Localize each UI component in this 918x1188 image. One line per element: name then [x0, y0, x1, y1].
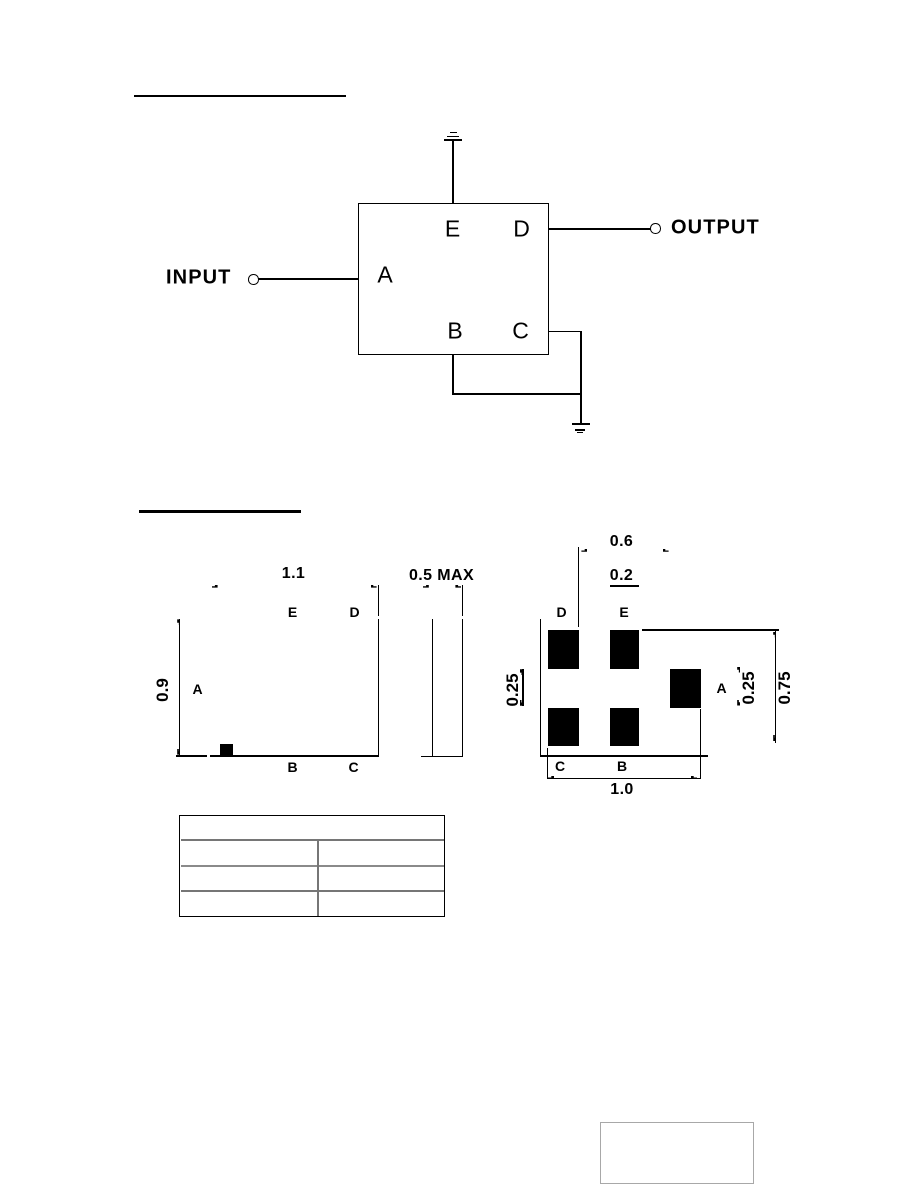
ground (bottom): [572, 423, 590, 425]
dim 0.2 value: [610, 567, 633, 585]
dim 1.0 arrow right: [691, 776, 697, 779]
pad E: [610, 630, 639, 669]
dim 0.75 line: [775, 630, 777, 743]
bottom edge: [421, 756, 463, 758]
pin E: [445, 215, 460, 242]
right edge extension: [378, 585, 380, 616]
dim 1.0 extension right: [700, 709, 702, 779]
pad label C: [555, 758, 565, 774]
dim 0.5 MAX value: [409, 567, 474, 585]
dim 0.75 arrow up: [773, 632, 776, 638]
dim 0.25 underline (left): [522, 669, 524, 706]
dim 0.9 arrow down: [177, 749, 180, 755]
dim 0.25 value (pad A): [739, 671, 759, 704]
dim 0.5 arrow right: [455, 585, 461, 588]
bottom edge: [210, 755, 379, 757]
pin A: [377, 261, 392, 288]
dim 0.6 value: [610, 533, 633, 551]
dim 0.75 value: [775, 671, 795, 704]
dim 1.0 value: [610, 781, 633, 799]
input terminal: [248, 274, 259, 285]
dim 0.75 arrow down: [773, 735, 776, 741]
pad A: [670, 669, 701, 708]
wire pin B to ground (bottom route): [452, 355, 454, 395]
pad label D: [556, 604, 566, 620]
dim 0.75 extension line: [642, 629, 779, 631]
notes table: [179, 815, 445, 918]
dim 0.9 arrow up: [177, 619, 180, 625]
right edge: [378, 619, 380, 756]
device body U1: [358, 203, 549, 355]
bottom edge left stub: [176, 755, 207, 757]
bottom edge: [540, 755, 708, 757]
pad label A: [716, 680, 726, 696]
pad label E: [619, 604, 628, 620]
pad label B: [617, 758, 627, 774]
dim 0.25 arrow up: [737, 667, 740, 673]
wire input to pin A: [258, 278, 358, 280]
dim 0.25 left tick down: [520, 700, 523, 706]
left edge: [432, 619, 434, 757]
pad B: [610, 708, 639, 746]
pin label C: [348, 759, 358, 775]
dim 1.0 line: [547, 778, 700, 780]
pad D: [548, 630, 580, 669]
dim 0.6 arrow left: [581, 549, 587, 552]
dim 0.9 value: [153, 678, 173, 702]
pin B: [447, 317, 462, 344]
left extension line: [540, 619, 542, 756]
pin D: [513, 215, 530, 242]
OUTPUT label: [671, 217, 760, 240]
dim 0.6 extension line: [578, 547, 580, 627]
ground (top, inverted): [450, 132, 457, 134]
pin label A: [192, 681, 202, 697]
dim 0.5 arrow left: [423, 585, 429, 588]
heading underline (section 2): [139, 510, 301, 513]
pin label B: [287, 759, 297, 775]
pad C: [548, 708, 580, 746]
dim 0.2 underline: [610, 585, 639, 587]
right edge: [462, 619, 464, 757]
dim 1.0 arrow left: [548, 776, 554, 779]
dim 0.6 arrow right: [663, 549, 669, 552]
right edge extension: [462, 585, 464, 616]
dim 1.1 value: [282, 565, 305, 583]
pin label D: [349, 604, 359, 620]
dim 0.25 value (left): [503, 673, 523, 706]
output terminal: [650, 223, 661, 234]
dim 1.1 arrow right: [371, 585, 377, 588]
dim 1.0 extension left: [547, 748, 549, 779]
dim 0.25 left tick up: [520, 669, 523, 675]
footer box: [600, 1122, 754, 1184]
heading underline (section 1): [134, 95, 346, 98]
wire from top ground to box: [452, 140, 454, 204]
pin1 index mark: [220, 744, 233, 756]
dim 1.1 arrow left: [212, 585, 218, 588]
pin C: [512, 317, 529, 344]
pin label E: [288, 604, 297, 620]
dim 0.25 arrow down: [737, 700, 740, 706]
wire pin D to output: [549, 228, 651, 230]
wire pin C to ground: [549, 331, 581, 333]
INPUT label: [166, 267, 232, 290]
dim 0.9 line: [179, 619, 181, 755]
